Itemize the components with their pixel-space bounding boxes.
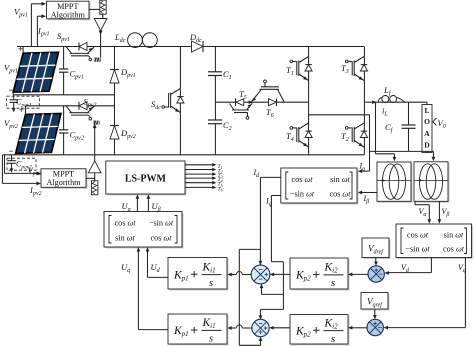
label T3 [341, 63, 349, 75]
label C1 [223, 69, 232, 81]
svg-text:Algorithm: Algorithm [46, 178, 81, 187]
PI box Kp1 Ki1 (d-axis) [168, 258, 228, 291]
capacitor Cpar1 [7, 95, 40, 113]
wire load bottom rail [370, 150, 434, 152]
svg-text:sin ωt: sin ωt [115, 234, 135, 243]
wire load return to leg1 [309, 115, 370, 152]
wire iL tap [376, 102, 397, 161]
wire bottom DC rail [3, 154, 364, 156]
label T2 [341, 131, 349, 143]
PI box Kp2 Ki2 (q-axis) [290, 315, 349, 346]
label Spv2 [84, 97, 97, 109]
wire Vpv2 sense [5, 155, 42, 176]
label Lf [383, 85, 392, 97]
wire Vd to J3 [385, 258, 432, 275]
MPPT algorithm box 2 [41, 169, 87, 189]
svg-text:+: + [264, 325, 268, 332]
capacitor C2 [208, 120, 222, 124]
label Id [253, 168, 261, 179]
label Ddc [189, 32, 202, 44]
label T6 [266, 107, 274, 119]
Park matrix (voltage) [396, 224, 473, 259]
svg-text:−: − [258, 321, 262, 328]
capacitor Cpar2 [7, 155, 36, 173]
capacitor Cpv2 [59, 106, 68, 155]
svg-text:D: D [424, 141, 430, 150]
svg-text:O: O [424, 117, 430, 126]
svg-text:cos ωt: cos ωt [407, 231, 429, 240]
label Ibeta [363, 194, 370, 205]
wire Sdc column [179, 47, 181, 155]
load box [422, 102, 432, 152]
wire inverter output [364, 100, 378, 104]
wire U alpha [136, 194, 140, 211]
label Valpha [419, 207, 428, 218]
label Cf [385, 122, 394, 134]
svg-text:A: A [424, 129, 430, 138]
gate driver amp 2 (triangle) [88, 161, 101, 181]
Vdref box [362, 238, 390, 259]
summing junction J3 (d voltage) [368, 266, 384, 282]
label Ipv1 [37, 26, 50, 38]
label T1 [286, 65, 294, 77]
wire Id [259, 177, 281, 265]
label iL [382, 106, 388, 118]
label Cpv2 [70, 130, 84, 142]
wire J4 output to Kp2 q [348, 326, 367, 330]
svg-text:s: s [209, 334, 213, 345]
label Vpv1 sense [14, 7, 28, 19]
summing junction J1 (d current) [251, 265, 270, 284]
solar panel PV1 [13, 52, 58, 92]
inductor Ldc [128, 33, 158, 48]
gate signal arrows T1-T6 [185, 163, 223, 193]
PI box Kp2 Ki2 (d-axis) [290, 258, 349, 290]
wire Ud feedback [146, 247, 168, 277]
svg-text:+: + [258, 330, 262, 337]
wire driver2 to Spv2 gate [93, 121, 97, 161]
label Vpv2 (panel) [4, 118, 18, 130]
IGBT T2 [345, 123, 367, 148]
LS-PWM box [106, 161, 187, 195]
wire J1 output to PI1 [227, 272, 251, 277]
inverse Park matrix (U) [104, 212, 183, 249]
wire Iq to J2 top [259, 294, 284, 319]
inductor Lf [378, 96, 405, 103]
switch T5 [230, 99, 254, 120]
switch Spv2 [66, 102, 94, 120]
wire U beta [147, 194, 151, 211]
svg-text:−sin ωt: −sin ωt [149, 219, 174, 228]
svg-text:+: + [264, 272, 268, 279]
wire Ipv2 sense [2, 155, 41, 186]
capacitor Cf [402, 102, 416, 151]
wire inverter leg1 [308, 47, 310, 155]
svg-text:s: s [209, 278, 213, 289]
gate pad Spv1 [94, 58, 101, 62]
wire Id to J2 bottom [239, 249, 262, 345]
wire Iq [260, 196, 284, 295]
svg-text:+: + [19, 105, 24, 115]
label Cpar2 [16, 160, 32, 171]
label V0 with arrow [433, 118, 446, 130]
svg-text:+: + [373, 321, 377, 328]
wire PI Kp2 d output to J1 [270, 273, 290, 277]
gate driver isolation 2 [86, 178, 98, 195]
label Vpv2 sense [28, 165, 42, 177]
wire PV1 positive stub [22, 47, 24, 54]
label Spv1 [57, 31, 70, 43]
wire PV2 negative [15, 153, 17, 154]
diode Dpv1 [110, 70, 119, 84]
svg-text:cos ωt: cos ωt [291, 175, 313, 184]
svg-text:L: L [424, 106, 429, 115]
label C2 [223, 120, 232, 132]
label Vbeta [442, 207, 450, 218]
label Vpv1 (panel) [4, 63, 18, 75]
label Ialpha [359, 162, 367, 173]
diode Dpv2 [110, 126, 119, 140]
wire Dpv column [114, 47, 116, 155]
svg-text:LS-PWM: LS-PWM [125, 173, 167, 184]
Vqref box [361, 293, 389, 311]
svg-text:Algorithm: Algorithm [51, 10, 86, 19]
wire neutral mid rail [215, 101, 309, 103]
diode Ddc [192, 41, 204, 52]
label U alpha [122, 201, 132, 213]
label Iq [265, 197, 272, 208]
wire inverter leg2 [363, 47, 365, 155]
svg-text:+: + [374, 268, 378, 275]
wire PI Kp2 q output to J2 [269, 326, 290, 330]
capacitor Cpv1 [59, 47, 68, 95]
wire Vpv1 sense [31, 2, 46, 47]
label Dpv2 [120, 128, 136, 140]
svg-text:−: − [258, 267, 262, 274]
svg-text:−: − [379, 271, 383, 278]
wire Vq to J4 [384, 258, 466, 330]
SOGI block current [377, 162, 412, 203]
label Ipv2 [29, 185, 42, 197]
label Cpar1 [16, 98, 32, 109]
IGBT T1 [290, 57, 312, 82]
wire Vqref to J4 [373, 309, 377, 319]
svg-text:s: s [331, 334, 335, 345]
label - terminal PV1 [9, 85, 14, 95]
switch Sdc (IGBT) [162, 89, 184, 114]
wire J2 output to PI2 [227, 325, 252, 330]
label U beta [152, 201, 161, 213]
SOGI block voltage [414, 162, 449, 203]
label T5 [239, 89, 247, 101]
svg-text:−: − [378, 325, 382, 332]
label + terminal PV2 [19, 105, 24, 115]
svg-text:cos ωt: cos ωt [443, 245, 465, 254]
label Ldc [114, 32, 126, 44]
wire top DC rail [17, 46, 364, 48]
switch Spv1 [66, 43, 94, 61]
IGBT T4 [290, 123, 312, 148]
wire DC-link column [214, 47, 216, 155]
label Vq [458, 263, 466, 274]
wire Valpha [415, 201, 431, 223]
switch T6 [251, 80, 284, 106]
label Dpv1 [120, 67, 136, 79]
summing junction J2 (q current) [252, 319, 269, 336]
svg-text:T6: T6 [218, 186, 223, 192]
label Vd [401, 263, 410, 274]
wire Ipv1 sense [37, 14, 46, 46]
wire PV1 negative [13, 92, 114, 95]
svg-text:−sin ωt: −sin ωt [290, 190, 315, 199]
label Sdc [151, 99, 161, 111]
wire Lf to load [378, 101, 427, 103]
svg-text:s: s [331, 278, 335, 289]
label Ud [151, 262, 161, 274]
svg-text:−: − [258, 277, 262, 284]
wire Vdref to J3 [374, 258, 378, 266]
svg-text:cos ωt: cos ωt [329, 190, 351, 199]
wire driver1 to Spv1 gate [99, 30, 103, 57]
svg-text:cos ωt: cos ωt [150, 234, 172, 243]
capacitor C1 [208, 72, 222, 76]
wire Vbeta [438, 201, 442, 223]
label T4 [286, 131, 294, 143]
svg-text:−: − [9, 146, 14, 156]
gate driver amp 1 (triangle) [94, 14, 107, 30]
MPPT algorithm box 1 [47, 1, 91, 20]
summing junction J4 (q voltage) [367, 319, 383, 335]
wire J3 output to Kp2 d [348, 273, 368, 277]
svg-text:sin ωt: sin ωt [444, 231, 464, 240]
IGBT T3 [345, 57, 367, 82]
svg-text:+: + [18, 44, 23, 54]
label Uq [121, 262, 130, 274]
gate pad Spv2 [93, 121, 100, 125]
wire Ialpha tap [358, 151, 370, 173]
label + terminal PV1 [18, 44, 23, 54]
svg-text:sin ωt: sin ωt [330, 175, 350, 184]
wire Ibeta [358, 191, 377, 195]
svg-text:−sin ωt: −sin ωt [405, 245, 430, 254]
PI box Kp1 Ki1 (q-axis) [168, 314, 228, 345]
label Cpv1 [70, 69, 84, 81]
wire V0 tap [432, 151, 436, 161]
svg-text:cos ωt: cos ωt [114, 219, 136, 228]
wire PV2 positive [26, 106, 115, 115]
Park matrix (current) [281, 168, 359, 204]
gate driver isolation 1 [89, 0, 106, 14]
label - terminal PV2 [9, 146, 14, 156]
wire Uq feedback [137, 247, 168, 330]
solar panel PV2 [16, 113, 61, 153]
